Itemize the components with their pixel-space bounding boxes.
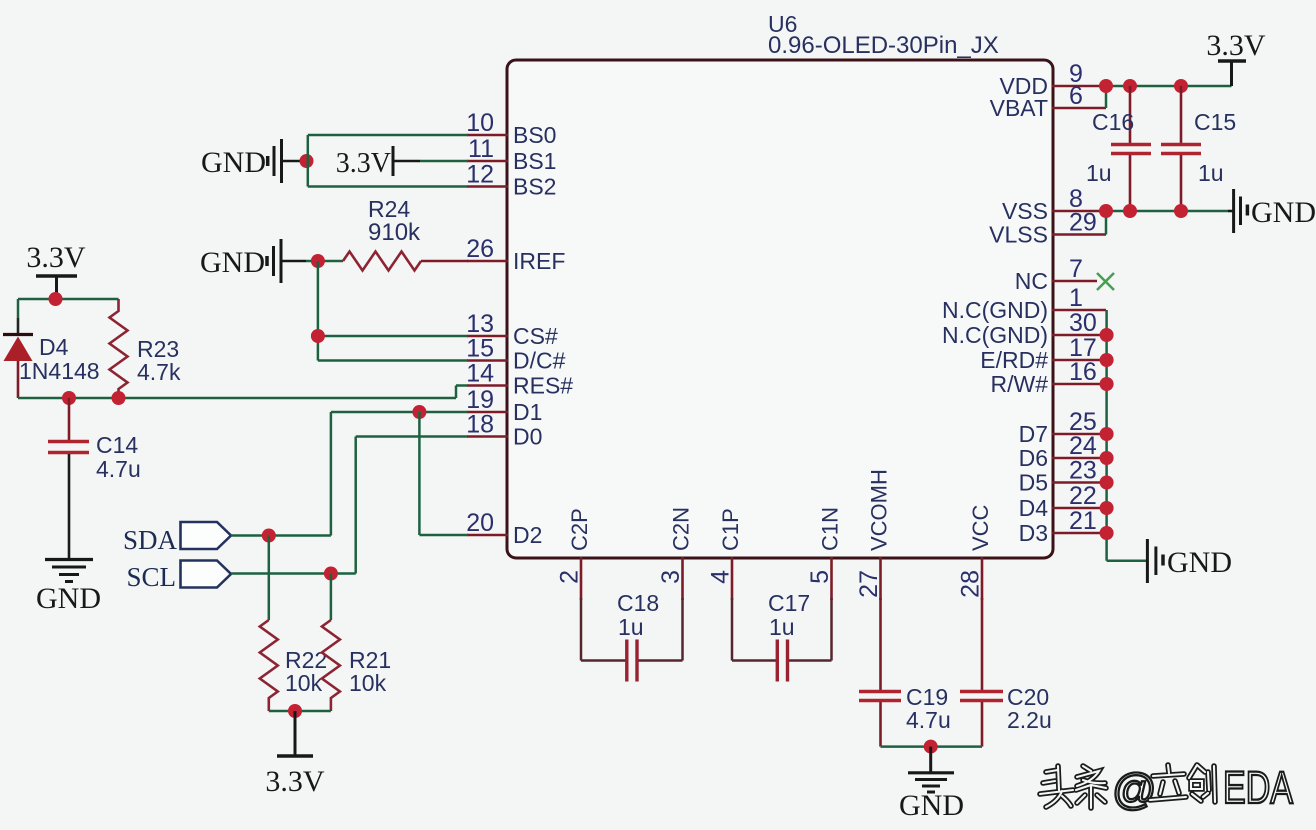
pin 25 (D7) right side	[1019, 408, 1106, 447]
svg-text:GND: GND	[201, 146, 266, 179]
svg-text:E/RD#: E/RD#	[980, 347, 1048, 373]
pin 30 (N.C(GND)) right side	[942, 309, 1106, 348]
pin 12 (BS2) left side	[466, 161, 556, 200]
power flag 3.3V (BS1)	[336, 146, 420, 179]
svg-text:22: 22	[1069, 482, 1097, 510]
pin 23 (D5) right side	[1019, 457, 1106, 496]
junction IREF/CS branch	[311, 254, 325, 268]
svg-text:D2: D2	[513, 522, 542, 548]
svg-text:BS0: BS0	[513, 122, 556, 148]
svg-text:4.7u: 4.7u	[96, 456, 141, 482]
wire VSS rail	[1106, 211, 1228, 235]
svg-text:1N4148: 1N4148	[19, 358, 100, 384]
pin 24 (D6) right side	[1019, 432, 1106, 471]
pin 27 (VCOMH) bottom side	[855, 469, 892, 600]
junction VDD pin9	[1099, 79, 1113, 93]
junction CS#	[311, 329, 325, 343]
svg-text:SCL: SCL	[126, 562, 176, 592]
wire 3.3V to diode/R23 top	[18, 299, 119, 334]
pin 7 (NC) right side	[1015, 255, 1097, 294]
svg-text:C2N: C2N	[669, 507, 694, 551]
ground (IREF / R24)	[200, 239, 306, 283]
junction C16 top	[1123, 79, 1137, 93]
wire 3.3V to BS1	[420, 160, 468, 163]
junction on 3.3V wire	[49, 292, 63, 306]
junction C15 top	[1174, 79, 1188, 93]
svg-text:3.3V: 3.3V	[265, 765, 325, 798]
resistor R24	[343, 252, 468, 271]
capacitor C15	[1161, 86, 1201, 211]
pin 18 (D0) left side	[466, 411, 542, 450]
wire R22/R21 bottom join	[269, 710, 331, 713]
svg-text:R/W#: R/W#	[991, 371, 1049, 397]
svg-text:VCOMH: VCOMH	[867, 469, 892, 551]
svg-text:EDA: EDA	[1223, 762, 1293, 813]
pin 26 (IREF) left side	[466, 235, 565, 274]
svg-text:10k: 10k	[285, 670, 323, 696]
pin 19 (D1) left side	[466, 386, 542, 425]
junction C14 branch	[62, 391, 76, 405]
svg-text:GND: GND	[899, 789, 964, 822]
capacitor C20	[960, 598, 1003, 747]
svg-text:C16: C16	[1092, 109, 1134, 135]
power flag 3.3V (top-right)	[1206, 29, 1266, 86]
pin 8 (VSS) right side	[1002, 185, 1106, 224]
capacitor C14	[48, 398, 89, 559]
watermark toutiao @lichuang EDA	[1040, 766, 1106, 808]
pin 1 (N.C(GND)) right side	[942, 284, 1106, 323]
pin 14 (RES#) left side	[466, 360, 573, 399]
pin 28 (VCC) bottom side	[957, 504, 994, 600]
pin 13 (CS#) left side	[466, 310, 558, 349]
pin 22 (D4) right side	[1019, 482, 1106, 521]
ground (right bus)	[1147, 539, 1232, 583]
wire R22 drop	[268, 536, 271, 621]
ground (C19/C20)	[899, 747, 964, 822]
svg-text:14: 14	[466, 360, 494, 388]
svg-text:10: 10	[466, 109, 494, 137]
junction bus	[1100, 526, 1114, 540]
capacitor C18	[627, 640, 637, 682]
junction R21 branch	[324, 567, 338, 581]
svg-text:0.96-OLED-30Pin_JX: 0.96-OLED-30Pin_JX	[768, 32, 999, 59]
ground (below C14)	[36, 560, 101, 616]
svg-text:D4: D4	[1019, 495, 1049, 521]
junction R22 branch	[262, 529, 276, 543]
capacitor C16	[1111, 86, 1151, 211]
svg-text:BS2: BS2	[513, 174, 556, 200]
svg-text:N.C(GND): N.C(GND)	[942, 322, 1048, 348]
svg-text:11: 11	[468, 135, 494, 163]
svg-text:27: 27	[855, 570, 883, 598]
junction VSS pin8	[1099, 204, 1113, 218]
net flag SDA	[123, 522, 231, 555]
pin 20 (D2) left side	[466, 509, 542, 548]
svg-text:16: 16	[1069, 358, 1097, 386]
svg-text:C18: C18	[617, 590, 659, 616]
svg-text:23: 23	[1069, 457, 1097, 485]
capacitor C19	[859, 598, 901, 747]
svg-text:D/C#: D/C#	[513, 348, 566, 374]
svg-text:30: 30	[1069, 309, 1097, 337]
svg-text:29: 29	[1069, 209, 1097, 237]
junction bus	[1100, 353, 1114, 367]
svg-text:7: 7	[1069, 255, 1083, 283]
svg-text:VBAT: VBAT	[990, 95, 1048, 121]
svg-text:D5: D5	[1019, 470, 1048, 496]
wire C17 loop	[732, 598, 832, 661]
junction D2 branch	[412, 405, 426, 419]
no-connect X (pin 7)	[1097, 273, 1114, 290]
resistor R23	[110, 299, 128, 398]
svg-text:3.3V: 3.3V	[26, 241, 86, 274]
svg-text:21: 21	[1069, 507, 1097, 535]
svg-text:GND: GND	[200, 246, 265, 279]
svg-text:N.C(GND): N.C(GND)	[942, 297, 1048, 323]
wire D2 branch	[419, 412, 468, 535]
svg-text:6: 6	[1069, 82, 1083, 110]
svg-text:GND: GND	[36, 582, 101, 615]
power flag 3.3V (bottom)	[265, 711, 325, 798]
junction C15 bottom	[1174, 204, 1188, 218]
wire R21 drop	[330, 574, 333, 621]
svg-text:2.2u: 2.2u	[1007, 707, 1052, 733]
svg-text:SDA: SDA	[123, 525, 178, 555]
svg-text:D0: D0	[513, 424, 542, 450]
pin 4 (C1P) bottom side	[707, 508, 744, 600]
junction bus	[1100, 451, 1114, 465]
pin 2 (C2P) bottom side	[556, 508, 593, 600]
pin 21 (D3) right side	[1019, 507, 1106, 546]
svg-text:@: @	[1112, 765, 1157, 814]
svg-text:C14: C14	[96, 432, 138, 458]
svg-text:RES#: RES#	[513, 373, 573, 399]
svg-text:VSS: VSS	[1002, 198, 1048, 224]
junction bus	[1100, 377, 1114, 391]
wire SDA to D1	[231, 412, 468, 536]
svg-text:5: 5	[806, 570, 834, 584]
svg-text:D3: D3	[1019, 520, 1048, 546]
junction C16 bottom	[1123, 204, 1137, 218]
junction bus	[1100, 427, 1114, 441]
svg-text:VCC: VCC	[968, 504, 993, 551]
svg-text:IREF: IREF	[513, 248, 565, 274]
svg-text:GND: GND	[1167, 546, 1232, 579]
junction R23 bottom	[112, 391, 126, 405]
junction bus	[1100, 328, 1114, 342]
svg-text:1: 1	[1069, 284, 1083, 312]
pin 29 (VLSS) right side	[989, 209, 1106, 248]
wire C18 loop	[581, 598, 683, 661]
svg-text:D6: D6	[1019, 445, 1048, 471]
resistor R21	[322, 620, 340, 711]
wire bottom rail to RES#	[18, 386, 468, 399]
svg-text:3.3V: 3.3V	[336, 148, 391, 179]
svg-text:4: 4	[707, 570, 735, 584]
junction bus	[1100, 476, 1114, 490]
ground (VSS right)	[1228, 189, 1316, 233]
svg-text:1u: 1u	[618, 614, 644, 640]
pin 3 (C2N) bottom side	[657, 507, 694, 600]
svg-text:C15: C15	[1194, 109, 1236, 135]
wire SCL to D0	[231, 437, 468, 574]
net flag SCL	[126, 561, 231, 593]
svg-text:GND: GND	[1251, 196, 1316, 229]
wire right GND bus	[1107, 310, 1146, 561]
pin 5 (C1N) bottom side	[806, 507, 843, 600]
svg-text:4.7u: 4.7u	[906, 707, 951, 733]
pin 6 (VBAT) right side	[990, 82, 1106, 121]
junction bus	[1100, 501, 1114, 515]
svg-text:3: 3	[657, 570, 685, 584]
pin 9 (VDD) right side	[999, 60, 1106, 99]
svg-text:BS1: BS1	[513, 148, 556, 174]
wire VDD rail	[1106, 86, 1232, 108]
svg-text:C1N: C1N	[818, 507, 843, 551]
wire BS0/BS2 loop	[308, 135, 468, 187]
svg-text:VLSS: VLSS	[989, 222, 1048, 248]
svg-text:1u: 1u	[769, 614, 795, 640]
svg-text:CS#: CS#	[513, 323, 558, 349]
svg-text:D1: D1	[513, 399, 542, 425]
capacitor C17	[777, 640, 787, 682]
junction GND-BS loop	[300, 154, 314, 168]
svg-text:2: 2	[556, 570, 584, 584]
pin 15 (D/C#) left side	[466, 335, 565, 374]
wire GND to R24	[306, 260, 343, 263]
svg-text:C2P: C2P	[567, 508, 592, 551]
svg-text:4.7k: 4.7k	[137, 359, 181, 385]
pin 11 (BS1) left side	[467, 135, 556, 174]
wire C19/C20 bottom join	[881, 745, 983, 748]
wire to CS# and D/C#	[318, 261, 468, 361]
junction bottom GND	[924, 740, 938, 754]
svg-text:20: 20	[466, 509, 494, 537]
pin 10 (BS0) left side	[466, 109, 556, 148]
svg-text:1u: 1u	[1086, 160, 1112, 186]
svg-text:1u: 1u	[1198, 160, 1224, 186]
pin 17 (E/RD#) right side	[980, 334, 1106, 373]
power flag 3.3V (top-left)	[26, 241, 86, 299]
svg-text:D7: D7	[1019, 421, 1048, 447]
svg-text:3.3V: 3.3V	[1206, 29, 1266, 62]
svg-text:910k: 910k	[368, 219, 421, 246]
pin 16 (R/W#) right side	[991, 358, 1107, 397]
junction 3.3V bottom	[288, 704, 302, 718]
svg-text:18: 18	[466, 411, 494, 439]
svg-text:C17: C17	[768, 590, 810, 616]
svg-text:26: 26	[466, 235, 494, 263]
diode D4	[3, 335, 33, 399]
svg-text:C1P: C1P	[718, 508, 743, 551]
resistor R22	[260, 620, 278, 711]
ground (BS0/BS2 loop)	[201, 139, 307, 183]
IC U6 body	[507, 60, 1053, 558]
svg-text:NC: NC	[1015, 268, 1048, 294]
svg-text:D4: D4	[39, 334, 69, 360]
svg-text:12: 12	[466, 161, 494, 189]
svg-text:15: 15	[466, 335, 494, 363]
svg-text:10k: 10k	[349, 670, 387, 696]
svg-text:28: 28	[957, 570, 985, 598]
